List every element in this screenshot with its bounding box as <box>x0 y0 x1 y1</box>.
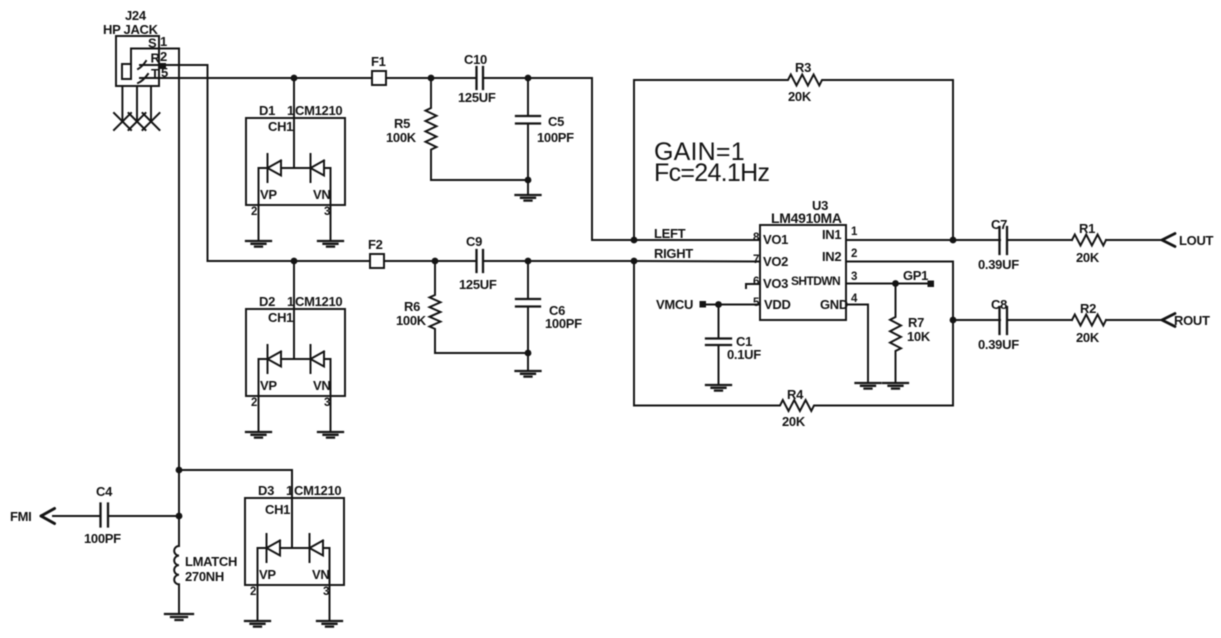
diode D1a <box>268 154 282 182</box>
wire long vertical net x=179 <box>178 49 180 547</box>
svg-text:6: 6 <box>753 276 759 288</box>
svg-text:125UF: 125UF <box>459 277 497 292</box>
capacitor C5 100PF <box>516 78 574 180</box>
svg-text:R3: R3 <box>795 60 811 75</box>
resistor R5 100K <box>386 78 437 180</box>
svg-text:VN: VN <box>313 378 330 393</box>
svg-text:C5: C5 <box>548 114 564 129</box>
wire U3 SHTDWN to GP1 <box>846 283 929 285</box>
svg-text:GND: GND <box>820 297 848 312</box>
svg-text:CM1210: CM1210 <box>294 483 341 498</box>
wire IN2 node to C8 <box>953 319 1000 321</box>
node junction IN2 branch to C8 <box>950 317 957 324</box>
wire rail B: C9 to RIGHT node <box>483 260 634 262</box>
svg-text:LM4910MA: LM4910MA <box>771 210 842 226</box>
diode pack D3 CM1210 <box>245 483 344 598</box>
ground D1 pin3 <box>318 241 343 247</box>
svg-text:1: 1 <box>287 294 294 309</box>
wire rail A: C10 to corner, down to LEFT node <box>483 78 634 240</box>
svg-text:3: 3 <box>324 206 330 218</box>
wire coil to ground <box>178 584 180 614</box>
no-connect X marks <box>114 113 160 130</box>
resistor R7 10K <box>890 284 931 384</box>
wire VMCU to U3 VDD <box>706 304 760 306</box>
node junction D1 pin1 on rail A <box>291 75 298 82</box>
svg-text:3: 3 <box>323 586 329 598</box>
wire D1 internal bus <box>259 168 331 241</box>
ground under C5 <box>527 180 529 195</box>
svg-text:2: 2 <box>250 586 256 598</box>
wire D3 internal bus <box>258 548 330 621</box>
wire U3 IN1 to C7 node <box>846 239 1000 241</box>
svg-text:D3: D3 <box>258 483 274 498</box>
resistor R4 20K feedback <box>634 320 953 429</box>
svg-text:CH1: CH1 <box>268 310 293 325</box>
svg-text:0.39UF: 0.39UF <box>978 257 1019 272</box>
svg-text:VO2: VO2 <box>763 254 788 269</box>
ground under C6 <box>527 353 529 371</box>
svg-text:2: 2 <box>251 206 257 218</box>
ground under R7 <box>883 383 908 389</box>
node junction C5/R5 ground <box>525 177 532 184</box>
node junction R7 on SHTDWN <box>892 280 899 287</box>
wire C7 to R1 <box>1007 239 1072 241</box>
svg-text:5: 5 <box>753 297 760 309</box>
ground under U3 GND <box>856 383 881 389</box>
svg-text:F1: F1 <box>371 54 386 69</box>
capacitor C9 125UF <box>459 234 497 292</box>
node junction C1 on VDD wire <box>715 301 722 308</box>
wire RIGHT node down to R4 rail <box>633 261 635 406</box>
diode pack D2 CM1210 <box>246 294 345 409</box>
svg-text:R5: R5 <box>394 116 410 131</box>
svg-text:D1: D1 <box>259 103 275 118</box>
net label VMCU <box>656 297 706 312</box>
svg-text:LMATCH: LMATCH <box>185 554 237 569</box>
svg-text:2: 2 <box>160 49 167 64</box>
wire U3 IN2 right then down to R4 <box>846 262 953 321</box>
svg-text:J24: J24 <box>125 8 147 23</box>
svg-text:VN: VN <box>312 567 329 582</box>
wire D2 pin1 into pack <box>293 261 295 359</box>
svg-text:VO1: VO1 <box>763 232 788 247</box>
wire rail B: jack R corner to F2 <box>208 260 371 262</box>
wire C4 to vertical net <box>108 515 179 517</box>
net label GP1 <box>903 268 934 287</box>
svg-text:R6: R6 <box>404 299 420 314</box>
ground D3 pin2 <box>245 621 270 627</box>
ground D2 pin3 <box>318 432 343 438</box>
svg-text:0.39UF: 0.39UF <box>978 337 1019 352</box>
wire D1 pin1 into pack <box>293 78 295 168</box>
ground under LMATCH <box>165 614 193 620</box>
svg-text:R2: R2 <box>1080 301 1096 316</box>
node junction at C4 branch <box>176 513 183 520</box>
capacitor C8 0.39UF <box>978 297 1019 352</box>
svg-text:10K: 10K <box>907 329 931 344</box>
node junction IN1/C7 <box>950 237 957 244</box>
wire R5 bottom link to C5 ground node <box>431 179 528 181</box>
capacitor C10 125UF <box>458 52 496 105</box>
svg-text:R1: R1 <box>1079 221 1095 236</box>
op-amp U3 LM4910MA <box>760 198 848 320</box>
svg-text:20K: 20K <box>788 89 812 104</box>
diode D1b <box>311 154 325 182</box>
wire jack pin T to rail A <box>140 77 372 79</box>
node junction at D3 branch <box>176 467 183 474</box>
svg-text:1: 1 <box>851 226 858 238</box>
svg-text:LEFT: LEFT <box>654 226 686 241</box>
wire rail A: F1 to C10 <box>386 77 476 79</box>
svg-text:IN2: IN2 <box>822 249 841 264</box>
svg-text:R: R <box>151 51 161 66</box>
svg-text:2: 2 <box>851 248 857 260</box>
svg-text:CM1210: CM1210 <box>295 294 342 309</box>
node junction C6/R6 ground <box>525 350 532 357</box>
fuse F2 <box>368 237 384 268</box>
fuse F1 <box>371 54 386 85</box>
svg-text:7: 7 <box>753 254 759 266</box>
wire R2 to ROUT arrow <box>1106 319 1162 321</box>
svg-text:3: 3 <box>851 271 857 283</box>
svg-text:IN1: IN1 <box>822 227 841 242</box>
capacitor C1 0.1UF <box>706 305 761 386</box>
svg-text:VMCU: VMCU <box>656 297 693 312</box>
svg-text:ROUT: ROUT <box>1174 313 1210 328</box>
svg-text:20K: 20K <box>1076 250 1100 265</box>
svg-text:20K: 20K <box>1076 330 1100 345</box>
capacitor C4 100PF <box>84 484 121 546</box>
node junction D2 pin1 on rail B <box>291 258 298 265</box>
node junction RIGHT <box>631 258 638 265</box>
svg-text:CH1: CH1 <box>265 502 290 517</box>
svg-text:FMI: FMI <box>10 509 31 524</box>
resistor R3 20K feedback <box>634 60 953 240</box>
svg-text:20K: 20K <box>782 414 806 429</box>
diode D2a <box>268 345 282 373</box>
svg-text:R4: R4 <box>787 387 804 402</box>
svg-text:R7: R7 <box>908 315 924 330</box>
capacitor C6 100PF <box>516 261 582 353</box>
wire D2 internal bus <box>259 359 331 432</box>
svg-text:125UF: 125UF <box>458 90 496 105</box>
wire R6 bottom link to C6 ground node <box>435 352 528 354</box>
wire U3 GND pin down to ground <box>846 305 868 384</box>
wire D3 pin1 into pack <box>291 470 293 548</box>
jack mounting stubs <box>122 86 151 121</box>
svg-text:2: 2 <box>251 397 257 409</box>
svg-text:3: 3 <box>324 397 330 409</box>
svg-text:1: 1 <box>287 103 294 118</box>
node junction R5 on rail A <box>428 75 435 82</box>
diode D2b <box>311 345 325 373</box>
svg-text:CM1210: CM1210 <box>295 103 342 118</box>
wire jack pin R down to right-channel rail <box>140 65 208 261</box>
resistor R2 20K <box>1072 301 1106 345</box>
svg-text:LOUT: LOUT <box>1179 233 1214 248</box>
node junction R6 on rail B <box>432 258 439 265</box>
svg-text:SHTDWN: SHTDWN <box>791 274 840 288</box>
svg-text:C8: C8 <box>991 297 1007 312</box>
inductor LMATCH 270NH <box>174 546 237 584</box>
svg-text:100K: 100K <box>396 313 427 328</box>
wire C8 to R2 <box>1007 319 1072 321</box>
wire D3 pin1 branch <box>179 470 292 548</box>
capacitor C7 0.39UF <box>978 217 1019 272</box>
ground D2 pin2 <box>246 432 271 438</box>
svg-text:CH1: CH1 <box>268 119 293 134</box>
svg-text:100K: 100K <box>386 130 417 145</box>
svg-text:VDD: VDD <box>764 297 791 312</box>
diode pack D1 CM1210 <box>246 103 345 218</box>
diode D3b <box>310 534 324 562</box>
wire R1 to LOUT arrow <box>1106 239 1162 241</box>
ground D3 pin3 <box>317 621 342 627</box>
svg-text:270NH: 270NH <box>185 569 224 584</box>
svg-text:VP: VP <box>259 567 276 582</box>
node junction C6 on rail B <box>525 258 532 265</box>
svg-text:8: 8 <box>753 232 760 244</box>
node junction C5 on rail A <box>525 75 532 82</box>
wire RIGHT node to U3 VO2 <box>634 260 760 263</box>
stub pin 6 VO3 <box>746 284 760 288</box>
resistor R6 100K <box>396 261 441 353</box>
ground D1 pin2 <box>246 241 271 247</box>
wire LEFT node to U3 VO1 <box>634 239 760 241</box>
diode D3a <box>267 534 281 562</box>
svg-text:VP: VP <box>260 378 277 393</box>
node junction LEFT <box>631 237 638 244</box>
ground under C1 <box>706 385 731 391</box>
resistor R1 20K <box>1072 221 1106 265</box>
svg-text:GP1: GP1 <box>903 268 928 283</box>
svg-text:VN: VN <box>313 187 330 202</box>
svg-text:100PF: 100PF <box>84 531 121 546</box>
svg-text:C4: C4 <box>96 484 113 499</box>
net label ROUT with arrow <box>1162 313 1210 328</box>
wire rail B: F2 to C9 <box>384 260 476 262</box>
svg-text:Fc=24.1Hz: Fc=24.1Hz <box>654 159 769 187</box>
svg-text:4: 4 <box>851 293 858 305</box>
svg-text:VO3: VO3 <box>763 276 788 291</box>
wire FMI arrow to C4 <box>53 515 100 517</box>
svg-text:RIGHT: RIGHT <box>654 246 693 261</box>
svg-text:1: 1 <box>160 34 167 49</box>
connector J24 HP JACK <box>103 8 168 86</box>
svg-text:C9: C9 <box>466 234 482 249</box>
svg-text:C10: C10 <box>464 52 487 67</box>
net label FMI with arrow <box>10 509 55 525</box>
svg-text:F2: F2 <box>368 237 383 252</box>
svg-text:C7: C7 <box>991 217 1007 232</box>
wire jack pin S to long vertical net <box>131 49 179 65</box>
svg-text:100PF: 100PF <box>537 130 574 145</box>
svg-text:D2: D2 <box>259 294 275 309</box>
svg-text:0.1UF: 0.1UF <box>727 347 761 362</box>
svg-text:100PF: 100PF <box>545 316 582 331</box>
net label LOUT with arrow <box>1162 233 1214 248</box>
svg-text:VP: VP <box>260 187 277 202</box>
